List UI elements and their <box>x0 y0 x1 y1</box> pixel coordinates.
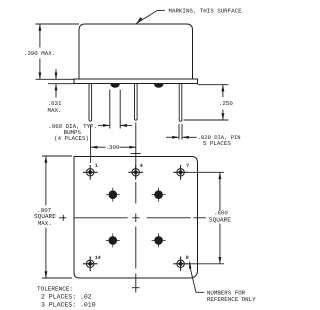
svg-text:.390 MAX.: .390 MAX. <box>24 50 55 57</box>
svg-text:REFERENCE ONLY: REFERENCE ONLY <box>207 296 256 303</box>
svg-text:SQUARE: SQUARE <box>209 217 231 224</box>
svg-text:2 PLACES: .02: 2 PLACES: .02 <box>41 294 92 301</box>
svg-text:5 PLACES: 5 PLACES <box>203 140 231 147</box>
svg-text:.250: .250 <box>219 100 233 107</box>
svg-text:MAX.: MAX. <box>48 107 62 114</box>
svg-text:14: 14 <box>95 255 101 261</box>
svg-text:.031: .031 <box>48 100 62 107</box>
svg-text:.300: .300 <box>106 144 120 151</box>
svg-text:TOLERENCE:: TOLERENCE: <box>37 285 73 292</box>
svg-text:MAX.: MAX. <box>38 220 52 227</box>
svg-text:3 PLACES: .010: 3 PLACES: .010 <box>41 302 96 309</box>
svg-text:7: 7 <box>186 163 189 169</box>
svg-text:1: 1 <box>95 163 98 169</box>
svg-text:(4 PLACES): (4 PLACES) <box>54 135 89 142</box>
svg-text:4: 4 <box>140 163 143 169</box>
svg-text:8: 8 <box>186 255 189 261</box>
svg-text:MARKING, THIS SURFACE: MARKING, THIS SURFACE <box>169 7 243 14</box>
